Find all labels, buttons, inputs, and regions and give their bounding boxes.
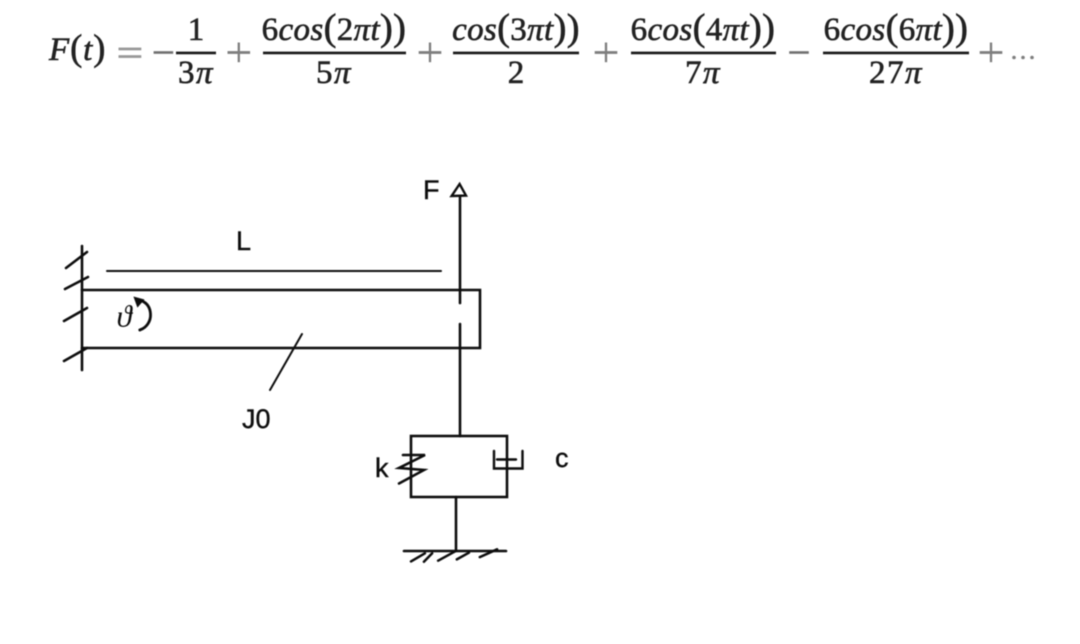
plus sign [419,43,442,63]
plus sign [980,43,1003,63]
minus sign [789,51,809,54]
svg-text:c: c [555,443,569,473]
fraction 1/3pi bar [176,52,216,55]
leader line to J0 [270,334,302,390]
svg-text:27π: 27π [869,55,923,91]
wall hatch 4 [64,348,87,361]
svg-text:L: L [236,226,251,256]
svg-text:J0: J0 [242,404,271,434]
fraction cos(3pit)/2 bar [453,52,579,55]
svg-text:F(t): F(t) [48,27,106,68]
svg-text:6cos(4πt)): 6cos(4πt)) [631,7,776,49]
damper c cup [494,451,523,469]
beam J0 outline [82,290,480,348]
ground hatch 2 [424,553,432,561]
dimension line L [107,270,441,272]
wall support line [81,246,84,370]
svg-text:6cos(2πt)): 6cos(2πt)) [262,7,407,49]
spring-damper box [411,436,507,497]
svg-text:ϑ: ϑ [117,299,134,334]
plus sign [595,43,618,63]
force arrow head [452,184,466,196]
damper c piston [497,458,516,460]
ground hatch 1 [411,553,425,561]
spring k zigzag [399,455,425,484]
plus sign [228,43,251,63]
wall hatch 3 [64,308,87,321]
force arrow line upper [459,196,462,303]
svg-text:1: 1 [188,12,205,48]
svg-text:5π: 5π [316,55,352,91]
svg-text:cos(3πt)): cos(3πt)) [452,7,580,49]
ground hatch 5 [480,549,497,557]
svg-text:6cos(6πt)): 6cos(6πt)) [824,7,969,49]
svg-text:F: F [423,175,440,205]
ground hatch 4 [457,553,469,560]
ground line [404,550,506,553]
svg-text:3π: 3π [178,55,214,91]
minus sign [154,51,174,54]
svg-text:k: k [375,453,389,483]
connector wire to ground [455,497,458,551]
wall hatch 2 [65,277,88,289]
svg-text:2: 2 [508,55,525,91]
rotation arrow arc [140,301,151,330]
wall hatch 1 [66,252,87,268]
fraction 6cos(6pit)/27pi bar [823,52,969,55]
ellipsis dots [1012,56,1034,60]
rotation arrow head [134,297,143,306]
svg-text:7π: 7π [685,55,721,91]
fraction 6cos(4pit)/7pi bar [631,52,776,55]
equals sign [119,48,142,58]
ground hatch 3 [438,551,455,560]
fraction 6cos(2pit)/5pi bar [263,52,406,55]
force arrow line lower / connector to box [459,324,462,436]
